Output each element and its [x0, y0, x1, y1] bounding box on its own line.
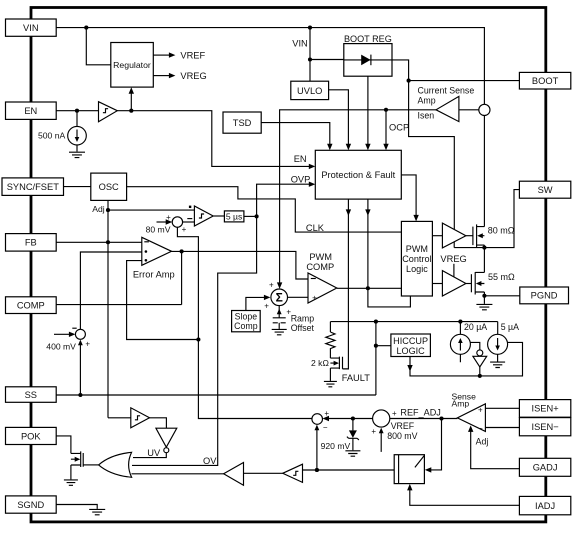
- label 920 mV: [321, 441, 351, 451]
- label PWM COMP: [306, 252, 334, 272]
- node SS junction: [78, 393, 82, 397]
- current source 20uA: [450, 334, 470, 354]
- svg-text:VIN: VIN: [23, 23, 39, 33]
- wire gain box output: [303, 469, 421, 471]
- svg-text:HICCUP: HICCUP: [393, 336, 428, 346]
- comparator UV 80mV: [194, 206, 213, 226]
- pin ISEN+: [519, 400, 570, 418]
- wire SS: [56, 394, 376, 396]
- wire UV to OR gate: [133, 453, 166, 458]
- svg-text:FB: FB: [25, 238, 37, 248]
- wire 5uA stem: [497, 322, 499, 362]
- inverter UV: [156, 428, 177, 453]
- buffer schmitt ref: [283, 464, 303, 482]
- svg-text:BOOT REG: BOOT REG: [344, 34, 392, 44]
- node UVLO-bootreg junction: [308, 57, 312, 61]
- wire FB to error amp: [56, 241, 142, 243]
- pin SYNC/FSET: [2, 178, 64, 196]
- svg-text:Logic: Logic: [406, 264, 428, 274]
- svg-text:Ramp: Ramp: [291, 313, 315, 323]
- node 920mV junction: [315, 468, 319, 472]
- comparator UV schmitt: [131, 408, 150, 428]
- block Slope Comp: [232, 311, 261, 332]
- summer sigma: [264, 280, 291, 316]
- pin SS: [6, 387, 57, 403]
- pin PGND: [520, 287, 569, 304]
- wire reference chain: [177, 227, 312, 418]
- wire OVP to protection: [257, 182, 316, 217]
- label 500 nA: [38, 131, 66, 141]
- ground SGND: [89, 509, 105, 514]
- label OCP: [389, 122, 409, 132]
- wire VREG supply stub: [453, 264, 455, 277]
- svg-text:−: −: [323, 423, 328, 432]
- node Adj junction: [106, 208, 110, 212]
- wire slope comp to summer: [246, 295, 271, 311]
- wire SW node: [454, 190, 519, 248]
- wire LS gate: [466, 283, 472, 285]
- node hiccup junction: [374, 344, 378, 348]
- block TSD: [223, 112, 261, 133]
- wire 5us output: [244, 215, 257, 217]
- pin FB: [6, 234, 57, 252]
- buffer U-EN schmitt: [99, 102, 118, 122]
- svg-text:POK: POK: [21, 431, 41, 441]
- svg-text:OCP: OCP: [389, 122, 409, 132]
- svg-text:80 mV: 80 mV: [146, 224, 171, 234]
- svg-text:Adj: Adj: [476, 436, 489, 446]
- svg-text:+: +: [166, 213, 171, 222]
- ground zener: [345, 451, 360, 456]
- node EN-regulator junction: [129, 109, 133, 113]
- node ref-erramp junction: [196, 337, 200, 341]
- wire sense circle to amp: [459, 109, 479, 111]
- svg-text:REF_ADJ: REF_ADJ: [400, 407, 440, 417]
- wire CLK: [127, 187, 402, 232]
- pin EN: [6, 102, 57, 119]
- wire EN pin to buffer: [56, 110, 99, 112]
- svg-text:−: −: [478, 424, 483, 433]
- block HICCUP LOGIC: [391, 334, 431, 357]
- svg-text:+: +: [478, 405, 483, 414]
- label CLK: [306, 223, 325, 233]
- svg-text:Amp: Amp: [452, 399, 470, 409]
- wire schmitt to buffer: [244, 472, 283, 474]
- node REF_ADJ junction: [439, 416, 443, 420]
- label 2 kohm: [311, 358, 329, 368]
- svg-text:EN: EN: [24, 106, 37, 116]
- svg-text:VREF: VREF: [180, 51, 205, 61]
- svg-text:Comp: Comp: [234, 321, 258, 331]
- pin ISEN&#8722;: [519, 418, 570, 436]
- source Ramp Offset: [273, 306, 286, 329]
- pin BOOT: [519, 72, 570, 89]
- svg-text:Slope: Slope: [235, 311, 258, 321]
- wire TSD to protection: [261, 123, 332, 151]
- wire VREG output: [153, 73, 175, 78]
- wire EN buffer output: [117, 111, 315, 169]
- label 80 mohm: [488, 225, 515, 235]
- svg-text:VREG: VREG: [180, 71, 206, 81]
- node hiccup-inverter junction: [478, 374, 482, 378]
- comparator PWM COMP: [308, 273, 337, 303]
- label OVP: [291, 174, 311, 184]
- wire LS drain: [483, 248, 485, 273]
- wire buffer to OR gate: [132, 473, 224, 475]
- svg-text:Protection & Fault: Protection & Fault: [321, 170, 395, 180]
- wire REF line right: [390, 418, 458, 420]
- wire 20uA inverter: [470, 342, 480, 349]
- inverter hiccup sense: [473, 350, 487, 376]
- resistor R1 2k: [326, 322, 335, 359]
- wire error amp output: [172, 251, 309, 279]
- svg-text:Control: Control: [402, 254, 431, 264]
- svg-text:Σ: Σ: [276, 291, 283, 305]
- svg-text:+: +: [85, 339, 90, 348]
- svg-text:Isen: Isen: [418, 111, 435, 121]
- wire SGND ground: [56, 505, 97, 509]
- label EN internal: [294, 154, 307, 164]
- svg-text:5 µA: 5 µA: [501, 322, 519, 332]
- svg-text:VREG: VREG: [440, 254, 466, 264]
- ground ramp offset: [272, 329, 287, 334]
- svg-text:Amp: Amp: [418, 96, 436, 106]
- label VREF: [180, 51, 205, 61]
- label REF_ADJ: [400, 407, 440, 417]
- node LS source junction: [482, 294, 486, 298]
- wire schmitt to inverter: [150, 418, 167, 428]
- svg-text:+: +: [371, 427, 376, 436]
- svg-text:5 µs: 5 µs: [226, 212, 242, 222]
- label 400 mV: [46, 341, 76, 351]
- block BOOT REG: [344, 34, 392, 76]
- node VIN-UVLO junction: [308, 26, 312, 30]
- wire 400mV to SS: [78, 340, 83, 395]
- wire regulator input: [86, 28, 111, 65]
- label FAULT: [342, 373, 371, 383]
- source 400mV offset: [54, 328, 90, 348]
- transistor M2 low-side 55mohm: [471, 272, 484, 294]
- wire Adj vertical: [108, 200, 194, 417]
- svg-text:+: +: [312, 293, 317, 302]
- diode D1 zener: [347, 419, 359, 451]
- pin POK: [6, 427, 57, 444]
- svg-text:TSD: TSD: [233, 118, 252, 128]
- wire HS gate: [466, 235, 473, 237]
- current source 5uA: [488, 334, 508, 354]
- svg-text:500 nA: 500 nA: [38, 131, 66, 141]
- node zener junction: [351, 416, 355, 420]
- svg-text:20 µA: 20 µA: [464, 322, 487, 332]
- ground under 500nA: [69, 152, 85, 157]
- wire GADJ: [468, 425, 519, 468]
- ground power: [476, 304, 492, 309]
- svg-text:FAULT: FAULT: [342, 373, 371, 383]
- wire summer to PWM comp: [288, 296, 309, 298]
- svg-text:55 mΩ: 55 mΩ: [488, 272, 515, 282]
- wire VREF output: [153, 52, 175, 57]
- wire Isen output: [277, 110, 436, 289]
- wire protection fault output B: [365, 199, 410, 307]
- transistor M3 POK open-drain: [71, 451, 99, 479]
- wire REF_ADJ to gain box: [425, 419, 442, 473]
- wire protection fault output A: [343, 199, 352, 369]
- node FB junction: [106, 240, 110, 244]
- current sensor circle: [479, 104, 490, 115]
- wire LS driver input: [432, 283, 442, 285]
- node fault-hiccup junction: [374, 320, 378, 324]
- node Isen-OCP junction: [384, 108, 388, 112]
- wire error amp in2: [80, 252, 141, 329]
- label Sense Amp: [452, 392, 477, 409]
- pin IADJ: [519, 496, 570, 514]
- node gain-920 junction2: [315, 468, 319, 472]
- node fault-20uA junction: [458, 320, 462, 324]
- current source 500nA: [68, 126, 87, 151]
- svg-text:OVP: OVP: [291, 174, 311, 184]
- node error amp output junction: [180, 249, 184, 253]
- pin GADJ: [519, 458, 570, 476]
- summer 920mV: [312, 409, 329, 432]
- source 80mV offset: [157, 206, 195, 234]
- pin VIN: [6, 19, 57, 36]
- wire HS driver input: [432, 235, 442, 237]
- ground 5uA: [490, 362, 505, 367]
- block Protection and Fault: [315, 150, 401, 199]
- label VIN internal: [292, 39, 308, 49]
- wire BOOT to high-side driver: [409, 81, 455, 230]
- label VREG: [180, 71, 206, 81]
- svg-text:SYNC/FSET: SYNC/FSET: [7, 182, 59, 192]
- wire OV chain down: [132, 216, 257, 465]
- svg-text:+: +: [182, 225, 187, 234]
- node SW junction: [482, 246, 486, 250]
- node 5us junction: [255, 214, 259, 218]
- svg-text:400 mV: 400 mV: [46, 341, 76, 351]
- wire COMP: [56, 251, 181, 304]
- driver HS triangle: [442, 223, 466, 248]
- wire VIN rail below sensor: [483, 116, 485, 227]
- node EN-500nA junction: [75, 109, 79, 113]
- wire VIN rail to high-side drain: [56, 28, 484, 105]
- op-amp Error Amp: [142, 237, 172, 265]
- label Current Sense Amp: [418, 86, 475, 121]
- wire ISENP input: [485, 407, 519, 409]
- buffer ref big: [224, 463, 244, 486]
- wire regulator enable: [129, 87, 134, 110]
- svg-text:UV: UV: [147, 448, 161, 458]
- block Regulator: [111, 43, 154, 88]
- summer VREF 800mV: [373, 409, 397, 427]
- node VIN-regulator junction: [84, 26, 88, 30]
- block UVLO: [291, 81, 329, 99]
- svg-text:+: +: [264, 301, 269, 310]
- label OV: [203, 456, 217, 466]
- transistor M4 fault 2k pulldown: [330, 357, 348, 381]
- wire POK pin: [56, 436, 71, 454]
- svg-text:OSC: OSC: [99, 182, 119, 192]
- svg-text:+: +: [269, 280, 274, 289]
- svg-text:2 kΩ: 2 kΩ: [311, 358, 329, 368]
- svg-text:Current Sense: Current Sense: [418, 86, 475, 96]
- op-amp current sense: [436, 96, 459, 121]
- wire REF line left: [326, 418, 373, 420]
- wire 20uA stem: [459, 322, 461, 363]
- ground fault FET: [324, 381, 337, 386]
- svg-text:SW: SW: [538, 185, 553, 195]
- label UV: [147, 448, 161, 458]
- svg-text:800 mV: 800 mV: [387, 431, 417, 441]
- svg-text:PWM: PWM: [406, 244, 428, 254]
- label 80 mV: [146, 224, 171, 234]
- svg-text:920 mV: 920 mV: [321, 441, 351, 451]
- svg-text:ISEN+: ISEN+: [532, 404, 559, 414]
- svg-text:LOGIC: LOGIC: [396, 346, 425, 356]
- svg-text:GADJ: GADJ: [533, 463, 558, 473]
- driver LS triangle: [442, 271, 466, 296]
- wire to BOOT REG input: [310, 59, 344, 61]
- svg-text:BOOT: BOOT: [532, 76, 559, 86]
- svg-text:SGND: SGND: [17, 500, 44, 510]
- pin SGND: [6, 496, 57, 513]
- svg-text:SS: SS: [25, 390, 37, 400]
- wire IADJ: [407, 484, 519, 505]
- svg-text:Error Amp: Error Amp: [133, 270, 175, 280]
- svg-text:OV: OV: [203, 456, 217, 466]
- svg-text:VREF: VREF: [391, 421, 415, 431]
- wire SYNC to OSC: [64, 186, 91, 188]
- label VREF 800mV: [387, 421, 417, 441]
- svg-text:80 mΩ: 80 mΩ: [488, 225, 515, 235]
- svg-text:UVLO: UVLO: [297, 86, 322, 96]
- wire VREF trim arrow: [371, 427, 383, 452]
- node BOOT junction: [407, 79, 411, 83]
- wire LS source to PGND: [484, 292, 519, 304]
- block OSC: [91, 173, 127, 200]
- svg-text:Offset: Offset: [291, 323, 315, 333]
- wire fault rail: [330, 321, 497, 323]
- svg-text:ISEN−: ISEN−: [532, 422, 559, 432]
- label 20 uA: [464, 322, 487, 332]
- op-amp Sense Amp: [457, 404, 485, 433]
- label Ramp Offset: [291, 313, 315, 333]
- wire PWM comparator output: [337, 287, 402, 289]
- svg-text:VIN: VIN: [292, 39, 308, 49]
- wire comparator to 5us: [213, 215, 224, 217]
- label Adj sense: [476, 436, 489, 446]
- wire OCP to protection: [383, 110, 388, 151]
- svg-text:IADJ: IADJ: [535, 501, 555, 511]
- label Error Amp: [133, 270, 175, 280]
- wire hiccup output: [407, 342, 522, 376]
- wire VIN to UVLO: [309, 28, 311, 82]
- wire UVLO to protection: [329, 90, 352, 151]
- svg-text:PGND: PGND: [531, 291, 558, 301]
- wire ISENN input: [485, 427, 519, 429]
- wire BOOT REG output to BOOT pin: [392, 60, 519, 81]
- gate OR pok: [99, 452, 132, 477]
- svg-text:+: +: [392, 409, 397, 418]
- svg-text:EN: EN: [294, 154, 307, 164]
- label 5 uA: [501, 322, 519, 332]
- transistor M1 high-side 80mohm: [473, 224, 485, 247]
- pin SW: [519, 181, 570, 198]
- wire error amp buffer feedback: [127, 261, 199, 340]
- ground POK: [64, 480, 78, 485]
- block PWM Control Logic: [401, 221, 432, 296]
- svg-text:CLK: CLK: [306, 223, 325, 233]
- svg-text:Regulator: Regulator: [113, 60, 151, 70]
- pin COMP: [6, 297, 57, 314]
- wire 920mV stem: [315, 425, 320, 470]
- wire hiccup input chain: [376, 322, 391, 395]
- wire 500nA stem: [76, 111, 78, 127]
- label 55 mohm: [488, 272, 515, 282]
- svg-text:COMP: COMP: [17, 300, 45, 310]
- block gain adjust: [394, 455, 424, 484]
- node PWM-comp output junction: [366, 286, 370, 290]
- label VREG driver supply: [440, 254, 466, 264]
- svg-text:Adj: Adj: [92, 204, 105, 214]
- svg-text:PWM: PWM: [309, 252, 332, 262]
- svg-text:+: +: [324, 409, 329, 418]
- wire BOOT REG to protection: [365, 76, 370, 150]
- wire protection to PWM logic: [401, 175, 419, 222]
- block 5us: [224, 211, 244, 222]
- svg-text:COMP: COMP: [306, 262, 334, 272]
- label Adj OSC: [92, 204, 105, 214]
